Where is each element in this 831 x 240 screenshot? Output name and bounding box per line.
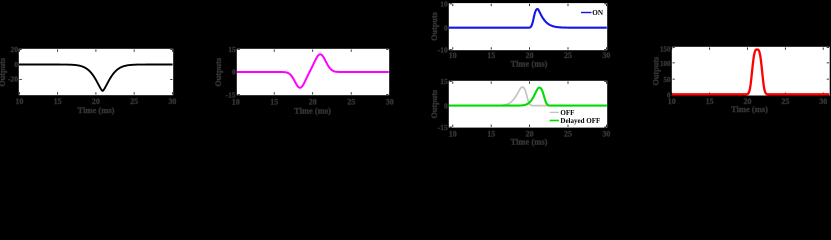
svg-text:0: 0 (444, 101, 448, 110)
svg-text:Delayed OFF: Delayed OFF (560, 117, 600, 125)
svg-text:Outputs: Outputs (430, 90, 439, 119)
svg-text:0: 0 (444, 23, 448, 32)
legend ON (581, 12, 592, 14)
svg-text:10: 10 (449, 51, 457, 60)
svg-text:-15: -15 (226, 90, 236, 99)
svg-text:Time (ms): Time (ms) (511, 59, 548, 69)
svg-text:Outputs: Outputs (214, 58, 223, 87)
svg-text:10: 10 (440, 0, 448, 9)
svg-text:30: 30 (168, 97, 176, 106)
svg-text:Time (ms): Time (ms) (731, 104, 768, 114)
svg-text:-15: -15 (438, 123, 448, 132)
plot 3: blue ON (430, 0, 611, 69)
svg-text:Outputs: Outputs (430, 12, 439, 41)
svg-text:Outputs: Outputs (651, 57, 660, 86)
svg-text:15: 15 (487, 129, 495, 138)
svg-text:15: 15 (487, 51, 495, 60)
svg-text:0: 0 (14, 60, 18, 69)
svg-text:OFF: OFF (560, 109, 574, 117)
legend OFF (550, 111, 559, 113)
svg-text:30: 30 (819, 97, 827, 106)
svg-text:10: 10 (449, 129, 457, 138)
svg-text:Time (ms): Time (ms) (511, 136, 548, 146)
svg-text:25: 25 (564, 129, 572, 138)
plot 4: OFF / delayed OFF (430, 77, 611, 146)
svg-text:25: 25 (130, 97, 138, 106)
plot 5: red spike output (651, 45, 829, 114)
svg-text:ON: ON (592, 9, 604, 17)
legend Delayed OFF (550, 120, 559, 122)
svg-text:15: 15 (440, 77, 448, 86)
svg-text:100: 100 (660, 60, 671, 68)
svg-text:-10: -10 (438, 45, 448, 54)
svg-text:30: 30 (602, 129, 610, 138)
svg-text:0: 0 (667, 92, 671, 100)
svg-text:15: 15 (228, 45, 236, 54)
svg-text:15: 15 (706, 97, 714, 106)
plot 2: magenta biphasic (214, 45, 394, 115)
svg-text:Time (ms): Time (ms) (294, 105, 331, 115)
svg-text:0: 0 (232, 68, 236, 77)
svg-text:15: 15 (270, 98, 278, 107)
svg-text:20: 20 (11, 45, 19, 54)
svg-text:25: 25 (347, 98, 355, 107)
svg-text:-20: -20 (8, 74, 18, 83)
svg-text:50: 50 (664, 76, 672, 84)
svg-text:15: 15 (54, 97, 62, 106)
svg-text:25: 25 (564, 51, 572, 60)
svg-text:150: 150 (660, 45, 671, 53)
svg-text:Time (ms): Time (ms) (78, 105, 115, 115)
svg-text:30: 30 (602, 51, 610, 60)
svg-text:Outputs: Outputs (0, 58, 7, 87)
svg-text:10: 10 (15, 97, 23, 106)
plot 1: black inhibitory dip (0, 45, 176, 115)
svg-text:30: 30 (386, 98, 394, 107)
svg-text:25: 25 (781, 97, 789, 106)
